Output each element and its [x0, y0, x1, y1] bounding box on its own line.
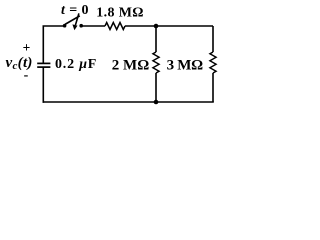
- svg-text:t = 0: t = 0: [61, 3, 89, 18]
- node B (bottom junction dot): [154, 100, 159, 105]
- wire (node A down to 2 Mohm resistor): [155, 26, 157, 52]
- wire (3 Mohm resistor to bottom-right corner): [212, 73, 214, 102]
- svg-text:-: -: [24, 68, 29, 83]
- wire top-left (from capacitor top plate up and right to switch left contact): [43, 26, 64, 64]
- capacitor C1 0.2 uF (plates): [37, 63, 50, 67]
- switch S1 (closes at t=0): [63, 13, 83, 30]
- svg-text:2 MΩ: 2 MΩ: [112, 58, 149, 74]
- resistor 1.8 Mohm (horizontal zigzag): [105, 23, 125, 30]
- wire (resistor R1 to top-right corner, passing node A): [125, 25, 213, 27]
- node A (top junction dot): [154, 24, 159, 29]
- svg-text:1.8 MΩ: 1.8 MΩ: [96, 5, 144, 20]
- svg-text:+: +: [23, 40, 31, 55]
- resistor 2 Mohm (vertical zigzag): [153, 52, 159, 73]
- wire (capacitor bottom plate down to bottom-left corner): [42, 67, 44, 103]
- svg-text:3 MΩ: 3 MΩ: [167, 58, 204, 74]
- svg-text:0.2 μF: 0.2 μF: [55, 57, 97, 72]
- svg-text:vc(t): vc(t): [6, 55, 33, 72]
- wire bottom (bottom-right corner to bottom-left corner): [43, 101, 214, 103]
- resistor 3 Mohm (vertical zigzag): [210, 52, 216, 73]
- wire (2 Mohm resistor to bottom node): [155, 73, 157, 102]
- wire (switch right contact to resistor R1): [81, 25, 105, 27]
- wire right side (top-right corner down to 3 Mohm resistor): [212, 26, 214, 52]
